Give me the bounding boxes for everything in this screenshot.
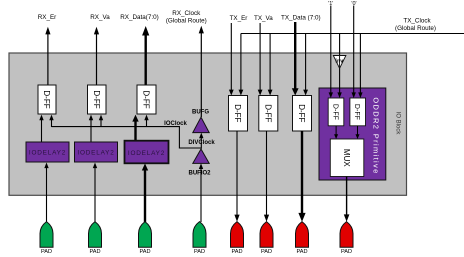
svg-text:TX_Er: TX_Er [230,15,248,22]
node RX_Clock (Global Route) [166,10,207,24]
wire TX_Clock to D-FF B clock [358,34,362,99]
wire inverter to D-FF A clock [337,68,341,98]
flip-flop U5 D-FF (TX_Er) [229,96,248,132]
svg-text:inv: inv [335,59,344,65]
svg-text:ODDR2 Primitive: ODDR2 Primitive [371,97,380,174]
label BUFIO2 [188,171,211,177]
ODDR2 primitive block [319,88,386,180]
flip-flop U7 D-FF (TX_Data) [293,96,312,132]
label IOClock [164,121,187,127]
wire TX_Clock to U5 clock [239,34,244,96]
flip-flop U3 D-FF (RX_Data) [137,85,156,114]
svg-text:DIVClock: DIVClock [188,140,215,146]
svg-text:IO Block: IO Block [395,112,401,136]
pad PAD3 (RX_Data) [139,222,152,255]
wire TX_Clock to inverter [339,34,341,56]
flip-flop D-FF B (ODDR2) [350,98,366,126]
mux MUX [330,139,364,177]
node TX_Er [230,15,248,22]
flip-flop D-FF A (ODDR2) [328,98,344,126]
svg-text:BUFG: BUFG [192,110,209,116]
pad PAD4 (RX_Clock) [193,222,206,255]
wire IOClock to U2 clock [99,115,103,127]
node TX_Data (7:0) [281,14,321,21]
wire RX_Er output arrow [45,27,50,85]
wire RX_Clock output of BUFG [199,26,204,117]
wire BUFIO2 to BUFG [199,133,203,149]
wire IODELAY2 to U3 data bus [132,115,138,141]
delay block IODELAY2 #2 [75,142,118,162]
svg-text:RX_Clock: RX_Clock [172,10,201,17]
svg-text:PAD: PAD [296,249,307,255]
pad PAD8 (TX_Clock) [340,222,353,255]
wire TX_Va to U6 data [258,23,263,96]
wire '1' to D-FF A data [329,6,333,99]
label IO Block [395,112,401,136]
wire IOClock to U3 clock [144,115,148,127]
svg-text:TX_Data (7:0): TX_Data (7:0) [281,14,321,21]
svg-text:RX_Va: RX_Va [90,14,110,21]
node TX_Clock (Global Route) [395,18,436,32]
svg-text:D-FF: D-FF [92,90,101,108]
node RX_Va [90,14,110,21]
svg-text:(Global Route): (Global Route) [166,17,207,24]
wire TX_Data bus to U7 data [292,22,299,96]
wire U6 to PAD6 [264,131,269,222]
pad PAD5 (TX_Er) [231,222,244,255]
svg-text:BUFIO2: BUFIO2 [188,171,211,177]
wire IOClock net [52,127,202,148]
IO Block outline [9,53,407,195]
wire D-FF A to MUX [334,126,338,139]
svg-text:PAD: PAD [89,249,100,255]
inverter inv [333,56,346,69]
node constant '0' [351,1,356,7]
flip-flop U2 D-FF (RX_Va) [88,85,107,114]
delay block IODELAY2 #3 (bus) [125,141,169,164]
svg-text:D-FF: D-FF [42,90,51,108]
svg-text:IODELAY2: IODELAY2 [128,150,165,157]
wire RX_Data bus output arrow [142,26,149,85]
pad PAD2 (RX_Va) [89,222,102,255]
svg-text:IODELAY2: IODELAY2 [29,150,66,157]
wire U5 to PAD5 [234,131,239,222]
buffer BUFIO2 triangle [193,149,209,163]
node RX_Er [38,14,57,21]
pad PAD7 (TX_Data) [296,222,309,255]
svg-text:PAD: PAD [139,249,150,255]
wire MUX to PAD8 [344,177,350,222]
wire TX_Clock global route [241,33,464,35]
flip-flop U6 D-FF (TX_Va) [259,96,278,132]
svg-text:D-FF: D-FF [233,104,242,122]
flip-flop U1 D-FF (RX_Er) [38,85,56,114]
wire PAD2 to IODELAY2 #2 [93,163,97,223]
label BUFG [192,110,209,116]
svg-text:D-FF: D-FF [353,104,360,120]
wire PAD1 to IODELAY2 #1 [44,163,48,223]
wire RX_Va output arrow [94,27,99,85]
svg-text:PAD: PAD [194,249,205,255]
svg-text:PAD: PAD [41,249,52,255]
svg-text:IODELAY2: IODELAY2 [77,150,114,157]
svg-text:D-FF: D-FF [142,90,151,108]
node TX_Va [254,15,273,22]
svg-text:D-FF: D-FF [297,104,306,122]
svg-text:PAD: PAD [231,249,242,255]
wire IODELAY2 to U1 data [39,115,43,142]
wire TX_Clock to U7 clock [303,34,308,96]
node constant '1' [328,1,333,7]
wire PAD3 to IODELAY2 #3 bus [142,164,148,223]
pad PAD1 (RX_Er) [40,222,53,255]
wire TX_Er to U5 data [229,23,234,96]
svg-text:MUX: MUX [342,149,351,167]
wire IOClock to U1 clock [49,115,53,127]
delay block IODELAY2 #1 [26,142,69,162]
buffer BUFG triangle [193,117,209,132]
wire PAD4 to BUFIO2 [199,163,203,222]
svg-text:RX_Data(7:0): RX_Data(7:0) [120,14,159,21]
label DIVClock [188,140,215,146]
node RX_Data(7:0) [120,14,159,21]
svg-text:IOClock: IOClock [164,121,187,127]
wire IODELAY2 to U2 data [89,115,93,142]
svg-text:RX_Er: RX_Er [38,14,57,21]
wire TX_Clock to U6 clock [268,34,273,96]
wire '0' to D-FF B data [352,6,356,99]
wire D-FF B to MUX [356,126,360,139]
svg-text:PAD: PAD [341,249,352,255]
svg-text:PAD: PAD [261,249,272,255]
svg-text:TX_Clock: TX_Clock [403,18,431,25]
svg-text:D-FF: D-FF [332,104,339,120]
pad PAD6 (TX_Va) [260,222,273,255]
svg-text:(Global Route): (Global Route) [395,25,436,32]
wire U7 to PAD7 bus [298,131,305,222]
svg-text:D-FF: D-FF [263,104,272,122]
svg-text:TX_Va: TX_Va [254,15,273,22]
